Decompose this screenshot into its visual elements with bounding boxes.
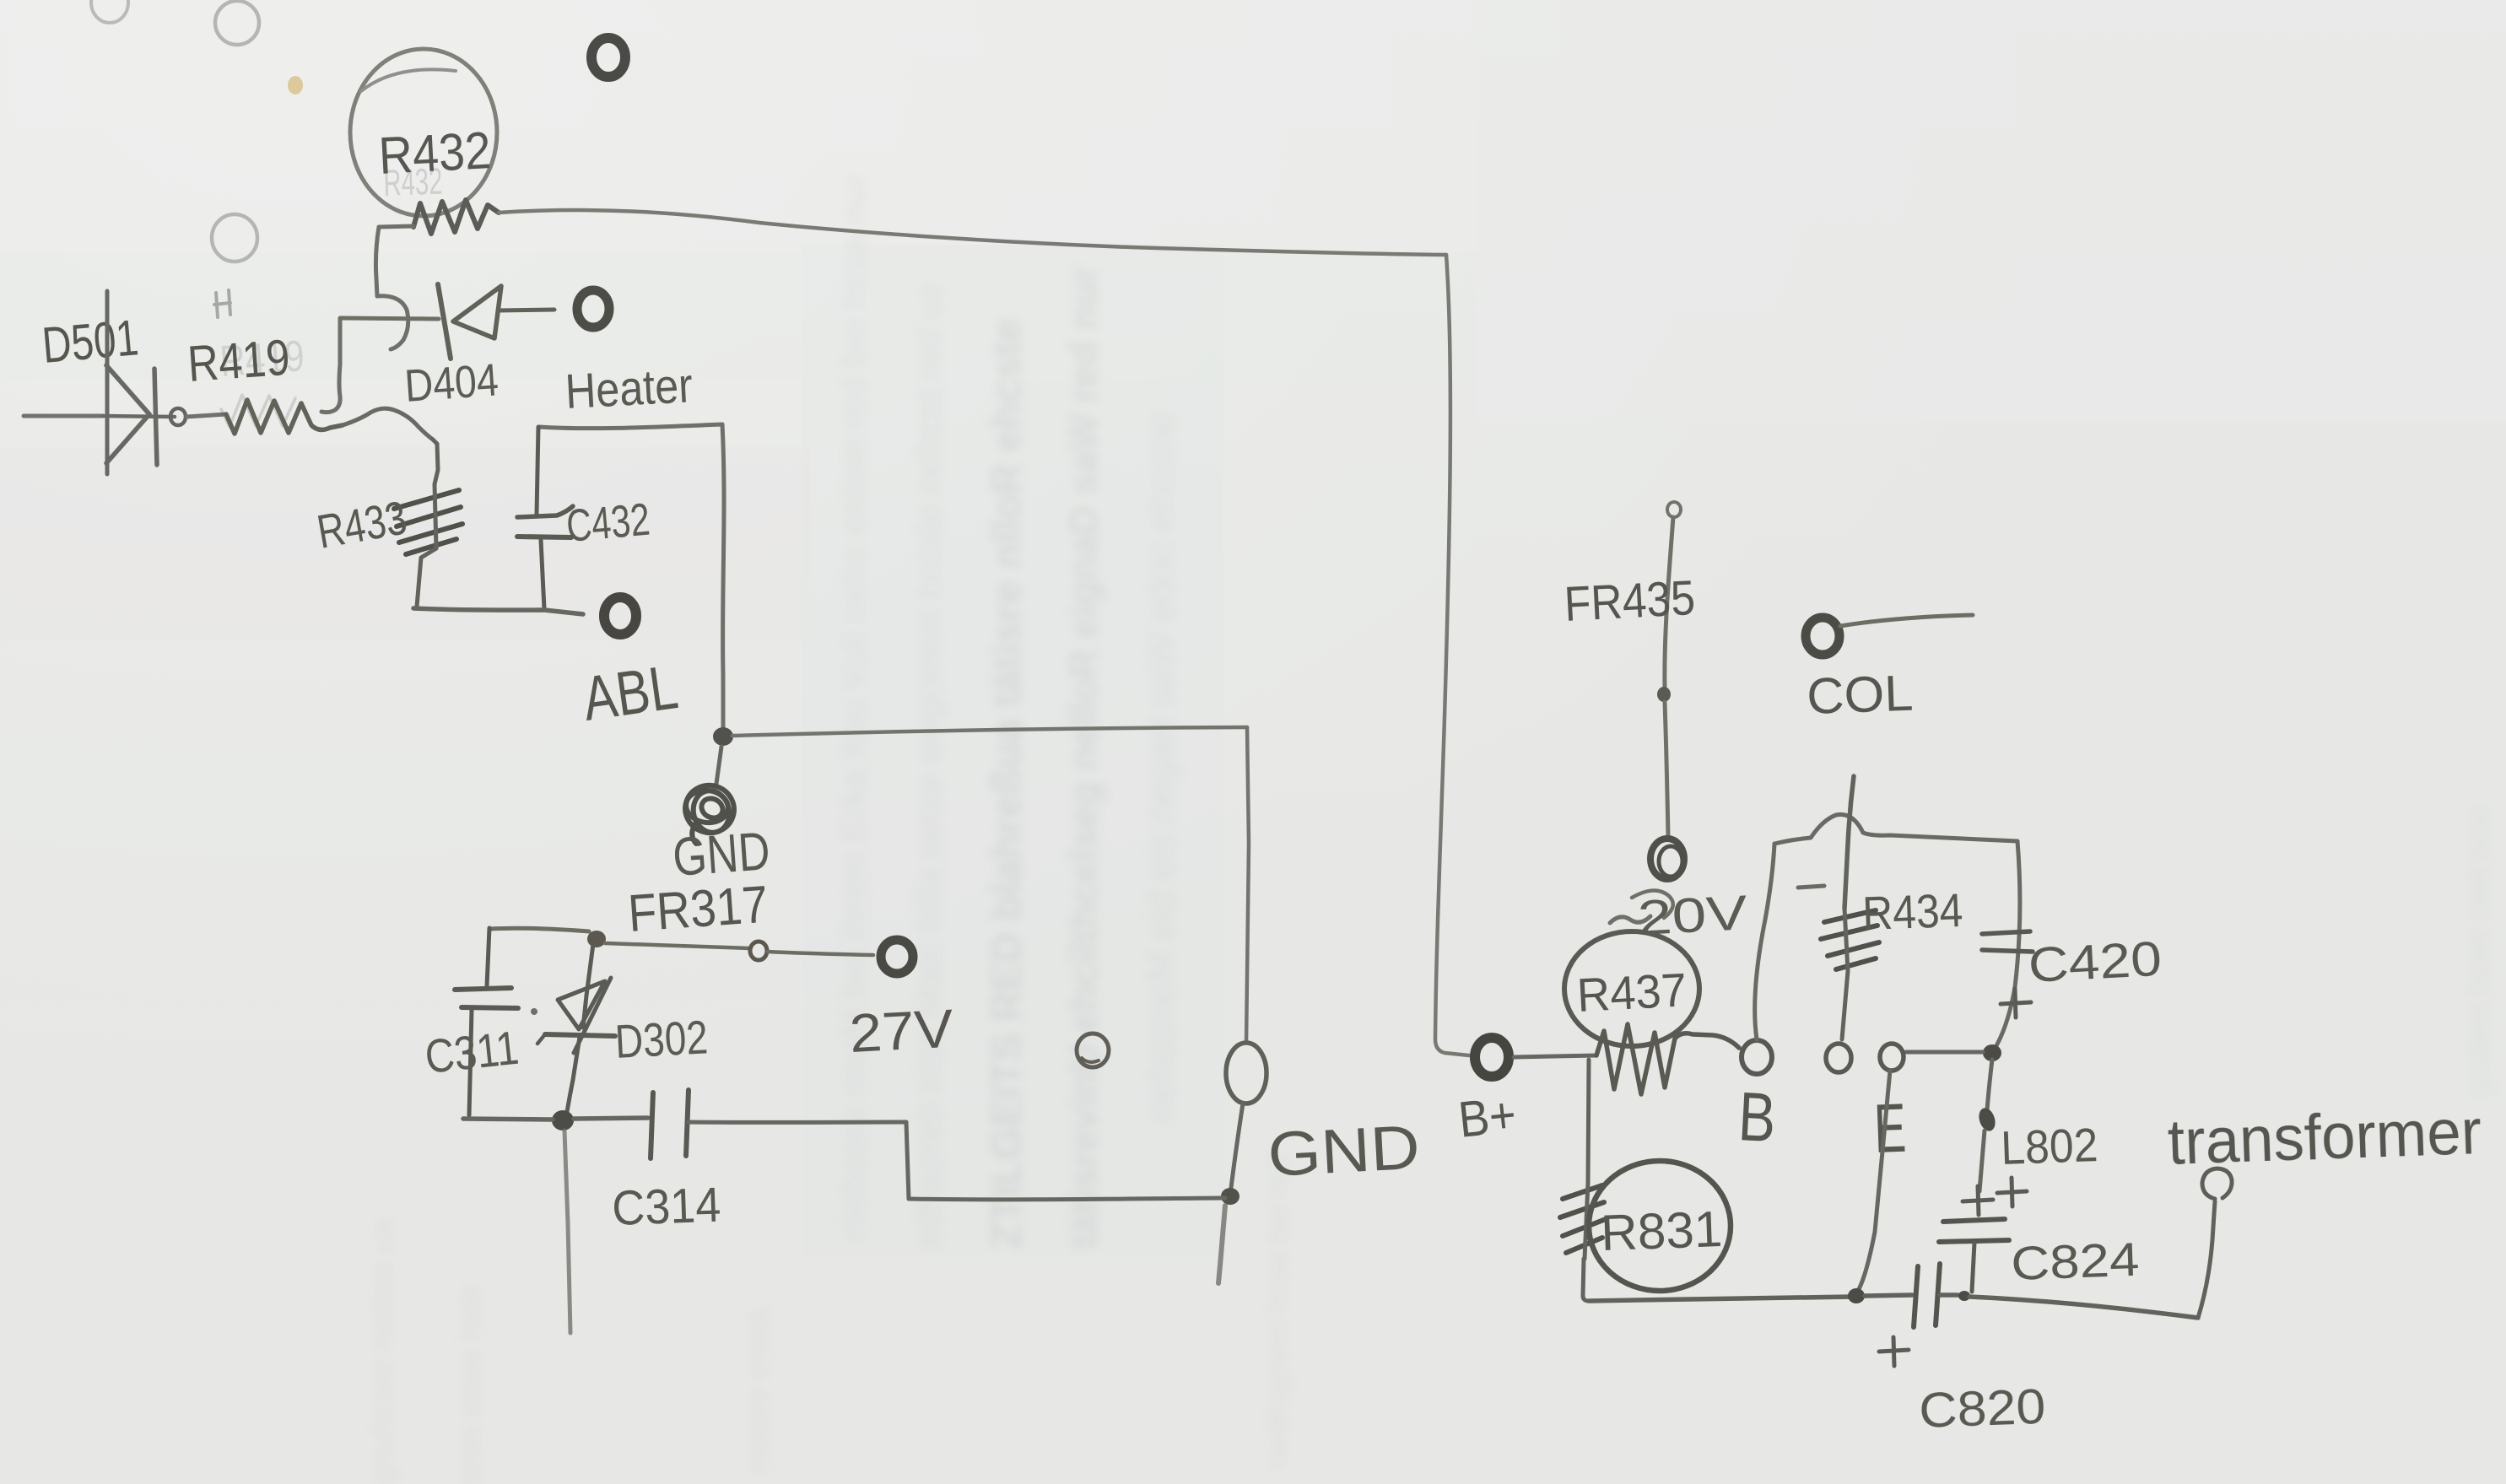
svg-text:D501: D501	[40, 309, 140, 374]
fuse resistor FR435 wire upper	[1665, 517, 1673, 687]
resistor R831 bottom lead	[1583, 1259, 1589, 1301]
zener diode D302	[537, 944, 615, 1112]
diode D501	[103, 291, 175, 474]
node middle terminal	[1826, 1044, 1851, 1072]
svg-text:tätisrevinU ehcilthcelseg nell: tätisrevinU ehcilthcelseg nelloR eignaD …	[1061, 266, 1105, 1249]
capacitor C824 plates	[1943, 1219, 2005, 1222]
capacitor C824 plus signs	[1963, 1186, 1993, 1215]
resistor R434 body (hatched)	[1821, 910, 1879, 969]
wire bottom to ABL	[413, 608, 583, 614]
wire B+ to R437	[1514, 1055, 1596, 1057]
terminal B+	[1475, 1038, 1509, 1077]
resistor R434 top lead	[1844, 776, 1854, 909]
wire bottom main	[1589, 1297, 1853, 1301]
show-through of printed text on reverse side (mirrored, blurred)	[365, 173, 2496, 1484]
bold ring mark top	[591, 38, 625, 77]
resistor R831 circled label	[1589, 1161, 1731, 1291]
svg-text:Heater: Heater	[564, 358, 694, 419]
resistor R434 bottom lead	[1842, 971, 1848, 1039]
svg-text:GND: GND	[1266, 1112, 1421, 1190]
fuse resistor FR435 top circle	[1667, 502, 1681, 517]
svg-text:gnillets hcier ned hcsi: gnillets hcier ned hcsi	[2461, 807, 2496, 1097]
svg-text:R419: R419	[219, 332, 306, 386]
wire to C820	[1865, 1295, 1912, 1296]
resistor R432 body	[413, 200, 499, 234]
resistor R437 body	[1596, 1024, 1739, 1094]
wire box top with hop	[1774, 814, 2017, 844]
wire C314 right	[689, 1120, 906, 1125]
svg-text:netsre eniek: netsre eniek	[740, 1306, 775, 1472]
wire C311 corner to FR317 left node	[490, 928, 589, 931]
wire B up to box	[1755, 844, 1774, 1039]
svg-text:nedliugnem hcsa bei red: nedliugnem hcsa bei red	[1261, 1156, 1294, 1468]
resistor R433 body (hatched)	[394, 490, 462, 554]
wire bottom left segment	[463, 1119, 553, 1120]
svg-text:E: E	[1872, 1090, 1907, 1168]
small open terminal circle (unlabeled)	[1077, 1033, 1109, 1067]
node FR317 right	[750, 942, 767, 960]
fuse resistor FR317 body wire	[605, 943, 749, 948]
wire D404 branch vertical	[321, 319, 340, 413]
resistor R433 bottom lead	[417, 548, 436, 607]
svg-text:R434: R434	[1861, 883, 1963, 940]
wire to 27V terminal	[768, 952, 873, 955]
wire hook from R432 lead to D404 node	[377, 296, 408, 349]
svg-text:nehcsneM eid eis negart saW ed: nehcsneM eid eis negart saW edoc ehcsne	[1140, 413, 1181, 1122]
svg-text:C820: C820	[1918, 1379, 2046, 1438]
stray pencil circle left	[212, 214, 257, 262]
svg-text:D404: D404	[403, 354, 500, 412]
fuse resistor FR435 wire lower	[1665, 702, 1668, 837]
faint H mark	[214, 290, 230, 317]
wire long vertical down to B+	[1435, 255, 1469, 1055]
diode D404	[438, 284, 554, 359]
node E terminal	[1880, 1044, 1904, 1071]
svg-text:transformer: transformer	[2167, 1096, 2483, 1179]
paper fleck	[288, 76, 303, 94]
node after D501	[170, 408, 186, 425]
svg-text:C311: C311	[423, 1021, 521, 1083]
terminal ABL	[604, 597, 636, 634]
wire junction to GND scribble	[716, 747, 721, 784]
terminal 220V ring	[1650, 839, 1684, 879]
wire node to R419	[186, 414, 226, 417]
capacitor C824 stem	[1972, 1243, 1974, 1292]
svg-text:L802: L802	[2000, 1118, 2098, 1174]
svg-text:ZTILGEITS RED blahreßua tätisr: ZTILGEITS RED blahreßua tätisre nlloR eh…	[983, 318, 1030, 1249]
terminal GND ring (right)	[1226, 1043, 1267, 1104]
resistor R432 circled label	[350, 49, 497, 216]
wire blob to C314	[574, 1118, 648, 1119]
wire junction to E	[1906, 1050, 1983, 1055]
wire step to junction	[909, 1198, 1225, 1200]
capacitor C820 plus	[1879, 1337, 1909, 1366]
svg-text:FR317: FR317	[626, 876, 770, 943]
svg-text:gnuhcsre nedeis ua: gnuhcsre nedeis ua	[365, 1218, 399, 1484]
svg-text:B: B	[1736, 1078, 1778, 1157]
capacitor C432	[517, 427, 573, 609]
svg-text:R432: R432	[383, 161, 444, 204]
resistor R419 body	[226, 400, 343, 434]
capacitor C311	[455, 928, 518, 1115]
wire from COL	[1840, 615, 1973, 626]
wire E down	[1858, 1071, 1890, 1291]
ground GND scribble terminal	[679, 779, 740, 844]
resistor R831 body (hatched)	[1560, 1185, 1606, 1253]
wire R432 left lead down	[375, 226, 413, 296]
svg-text:bnm etsre hcilr: bnm etsre hcilr	[453, 1285, 488, 1484]
svg-text:ABL: ABL	[579, 651, 682, 734]
fuse resistor FR435 mid dot	[1657, 687, 1671, 702]
terminal Heater	[577, 290, 609, 327]
node 20V label with squiggle	[1610, 916, 1650, 923]
wire down to GND ring	[1246, 727, 1249, 1043]
wire long from junction right	[732, 727, 1247, 736]
resistor R434 minus dash	[1798, 886, 1824, 888]
wire stub below junction	[1218, 1206, 1225, 1283]
wire riser to transformer	[2198, 1201, 2215, 1318]
wire box right vertical	[1995, 841, 2020, 1049]
junction blob FR317 left	[587, 931, 606, 947]
capacitor C420 plates	[1982, 931, 2030, 934]
wire step down	[906, 1122, 909, 1199]
svg-text:COL: COL	[1806, 665, 1914, 725]
inductor L802 dot	[1976, 1106, 1998, 1133]
wire into D501	[24, 414, 103, 418]
junction blob bottom-left	[552, 1110, 574, 1131]
inductor L802 wire	[1987, 1060, 1992, 1110]
svg-text:B+: B+	[1456, 1086, 1519, 1148]
inductor L802 wire lower	[1979, 1131, 1985, 1191]
transformer terminal circle	[2202, 1168, 2232, 1199]
wire stub below blob	[564, 1131, 570, 1333]
terminal 27V	[881, 940, 913, 974]
svg-text:D302: D302	[613, 1010, 709, 1068]
capacitor C420 plus	[2001, 989, 2031, 1017]
svg-text:C314: C314	[611, 1178, 721, 1236]
wire GND ring to bottom junction	[1231, 1104, 1243, 1188]
svg-text:27V: 27V	[848, 998, 955, 1064]
svg-text:FR435: FR435	[1563, 570, 1696, 632]
svg-text:R437: R437	[1575, 963, 1688, 1022]
svg-text:etlhazreb nise Matc hilla setz: etlhazreb nise Matc hilla setze wegotren…	[909, 282, 948, 1249]
wire heater box top	[539, 424, 722, 429]
capacitor C820 bars	[1914, 1266, 1918, 1327]
terminal COL	[1806, 618, 1839, 655]
wire long from R432 to right edge	[499, 210, 1446, 255]
junction dot bottom	[1221, 1188, 1239, 1205]
node B terminal	[1742, 1040, 1772, 1074]
svg-text:C420: C420	[2027, 931, 2163, 993]
svg-text:C824: C824	[2010, 1233, 2140, 1290]
resistor R831 top lead	[1588, 1060, 1589, 1183]
resistor R433 top lead	[433, 440, 438, 484]
junction dot E-to-bottom	[1848, 1288, 1865, 1303]
junction dot below heater box	[713, 727, 733, 746]
wire heater box right vertical	[722, 424, 724, 727]
svg-text:niehcsre nnaM bei ihrem Erka l: niehcsre nnaM bei ihrem Erka ltnu Vull n…	[835, 173, 872, 1240]
svg-text:R831: R831	[1600, 1201, 1723, 1261]
wire C820 to right riser	[1940, 1292, 1958, 1298]
stray pencil circle top edge left	[91, 0, 128, 23]
wire R419 to R433 with hump	[343, 408, 433, 440]
wire to D404	[340, 318, 439, 319]
junction blob right	[1983, 1044, 2001, 1061]
capacitor C314	[651, 1090, 689, 1158]
resistor R437 circled label	[1564, 931, 1699, 1046]
svg-text:C432: C432	[564, 494, 652, 552]
stray pencil circle top	[215, 1, 259, 45]
